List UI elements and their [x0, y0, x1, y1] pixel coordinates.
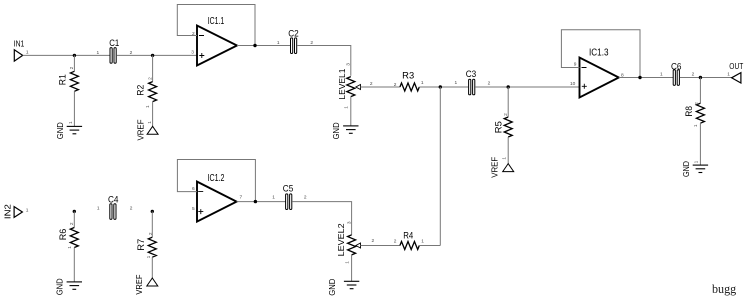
wire R5 top stub: [507, 87, 509, 117]
svg-text:1: 1: [421, 239, 424, 245]
wire R7 to VREF: [151, 257, 153, 278]
op-amp IC1.1: [197, 16, 237, 65]
svg-text:R1: R1: [58, 74, 68, 85]
wire R2 to VREF: [152, 102, 154, 127]
wire R6 to GND: [73, 248, 75, 282]
svg-text:IN1: IN1: [14, 39, 25, 49]
port IN1: [14, 39, 25, 61]
svg-text:2: 2: [372, 238, 375, 244]
svg-text:2: 2: [394, 82, 397, 88]
svg-text:R2: R2: [136, 85, 146, 96]
capacitor C5: [283, 184, 294, 210]
svg-text:2: 2: [192, 31, 195, 37]
svg-text:C5: C5: [283, 184, 294, 194]
svg-text:VREF: VREF: [134, 275, 144, 295]
wire R8 to GND: [699, 123, 701, 165]
svg-text:LEVEL1: LEVEL1: [337, 68, 347, 99]
svg-text:2: 2: [394, 238, 397, 244]
svg-text:2: 2: [370, 81, 373, 87]
svg-text:IC1.2: IC1.2: [208, 173, 225, 184]
capacitor C4: [108, 195, 119, 220]
wire R6 top stub: [73, 211, 75, 227]
op-amp IC1.2: [197, 173, 237, 222]
svg-text:R3: R3: [402, 71, 414, 81]
svg-text:IC1.3: IC1.3: [589, 48, 609, 59]
supply VREF under R5: [490, 157, 514, 178]
resistor R3: [400, 71, 419, 91]
wire feedback loop IC1.3: [561, 30, 640, 78]
wire LEVEL1 wiper to R3: [361, 86, 400, 88]
ground GND under R6: [54, 278, 82, 295]
svg-text:1: 1: [502, 157, 508, 160]
svg-text:GND: GND: [55, 122, 65, 139]
capacitor C3: [466, 69, 477, 95]
svg-text:C2: C2: [288, 29, 299, 39]
svg-text:1: 1: [421, 80, 424, 86]
port OUT: [729, 61, 743, 83]
wire LEVEL2 to GND: [351, 255, 353, 281]
wire IC1.2 output to C5: [237, 201, 286, 203]
svg-text:1: 1: [694, 160, 700, 163]
resistor R1: [58, 71, 79, 91]
svg-text:C1: C1: [109, 38, 119, 48]
svg-text:9: 9: [574, 61, 577, 67]
svg-text:bugg: bugg: [712, 282, 737, 296]
svg-text:C4: C4: [108, 195, 119, 205]
svg-text:3: 3: [346, 63, 352, 66]
svg-text:2: 2: [148, 77, 154, 80]
svg-text:1: 1: [26, 208, 29, 214]
svg-text:1: 1: [727, 72, 730, 78]
svg-text:3: 3: [191, 50, 194, 56]
node junction IC1.1 feedback: [253, 44, 256, 47]
capacitor C6: [671, 62, 682, 86]
svg-text:2: 2: [503, 113, 509, 116]
svg-text:C6: C6: [671, 62, 682, 72]
port IN2: [3, 204, 23, 219]
svg-text:1: 1: [344, 106, 350, 109]
svg-text:2: 2: [69, 66, 75, 69]
wire R3 to C3: [419, 86, 468, 88]
wire LEVEL1 to GND: [350, 97, 352, 126]
wire junction down to R4: [439, 87, 441, 246]
svg-text:1: 1: [145, 105, 151, 108]
capacitor C2: [288, 29, 299, 54]
svg-text:2: 2: [694, 102, 700, 105]
capacitor C1: [109, 38, 119, 63]
svg-text:2: 2: [130, 206, 133, 212]
node junction R2 top: [151, 54, 154, 57]
potentiometer LEVEL1: [337, 68, 361, 99]
wire R5 to VREF: [507, 137, 509, 164]
op-amp IC1.3: [580, 48, 619, 98]
svg-text:1: 1: [67, 246, 73, 249]
svg-text:GND: GND: [54, 278, 64, 295]
node junction R1 top: [73, 54, 76, 57]
resistor R2: [136, 82, 157, 102]
svg-text:2: 2: [488, 80, 491, 86]
node junction R8 top: [699, 76, 702, 79]
supply VREF under R2: [136, 120, 159, 141]
wire R8 top stub: [699, 78, 701, 104]
svg-text:IC1.1: IC1.1: [208, 16, 225, 27]
svg-text:GND: GND: [681, 161, 691, 177]
svg-text:VREF: VREF: [136, 120, 146, 141]
resistor R5: [493, 117, 512, 137]
svg-text:5: 5: [192, 206, 195, 212]
svg-text:GND: GND: [331, 122, 341, 139]
wire R7 top stub: [151, 211, 153, 237]
svg-text:1: 1: [97, 50, 100, 56]
svg-text:1: 1: [146, 255, 152, 258]
svg-text:1: 1: [455, 80, 458, 86]
wire C5 to LEVEL2: [292, 202, 351, 235]
ground GND under LEVEL2: [327, 279, 359, 296]
svg-text:1: 1: [345, 261, 351, 264]
wire R1 to GND: [73, 91, 75, 126]
svg-text:C3: C3: [466, 69, 477, 79]
wire feedback loop IC1.2: [177, 160, 255, 202]
node junction R6 top: [73, 210, 76, 213]
wire IN1 to C1: [23, 54, 110, 56]
svg-text:2: 2: [304, 195, 307, 201]
wire C2 to LEVEL1: [297, 46, 351, 76]
wire R1 top stub: [73, 55, 75, 71]
svg-text:R8: R8: [684, 106, 694, 117]
supply VREF under R7: [134, 275, 158, 295]
svg-text:1: 1: [660, 72, 663, 78]
svg-text:2: 2: [148, 232, 154, 235]
svg-text:1: 1: [693, 124, 699, 127]
svg-text:1: 1: [97, 206, 100, 212]
resistor R4: [400, 230, 419, 249]
svg-text:1: 1: [272, 195, 275, 201]
node junction R3 C3 R4: [439, 85, 442, 88]
svg-text:3: 3: [346, 221, 352, 224]
svg-text:10: 10: [570, 81, 576, 87]
svg-text:OUT: OUT: [729, 61, 743, 71]
ground GND under R1: [55, 122, 82, 139]
node junction R7 top: [151, 210, 154, 213]
node junction IC1.2 feedback: [254, 200, 257, 203]
node junction IC1.3 feedback: [638, 76, 641, 79]
wire C1 to IC1.1: [117, 54, 197, 56]
svg-text:2: 2: [69, 222, 75, 225]
wire LEVEL2 wiper to R4: [361, 245, 400, 247]
svg-text:GND: GND: [327, 279, 337, 296]
svg-text:IN2: IN2: [3, 204, 13, 219]
svg-text:1: 1: [26, 50, 29, 56]
resistor R8: [684, 103, 704, 123]
svg-text:R6: R6: [58, 229, 68, 241]
svg-text:VREF: VREF: [490, 157, 500, 178]
ground GND under R8: [681, 161, 708, 177]
potentiometer LEVEL2: [336, 223, 360, 256]
svg-text:R7: R7: [136, 239, 146, 251]
resistor R7: [136, 237, 156, 257]
wire R2 top stub: [152, 55, 154, 81]
ground GND under LEVEL1: [331, 122, 358, 139]
svg-text:1: 1: [147, 121, 153, 124]
wire C3 to IC1.3: [475, 86, 579, 88]
wire IC1.1 output to C2: [237, 45, 291, 47]
svg-text:1: 1: [68, 121, 74, 124]
svg-text:R5: R5: [493, 121, 503, 133]
wire R4 to junction riser: [419, 245, 440, 247]
wire C6 to OUT: [680, 77, 732, 79]
svg-text:LEVEL2: LEVEL2: [336, 223, 346, 256]
svg-text:2: 2: [692, 72, 695, 78]
wire feedback loop IC1.1: [177, 5, 255, 46]
wire IC1.3 output to C6: [619, 77, 673, 79]
resistor R6: [58, 228, 78, 248]
svg-text:7: 7: [240, 195, 243, 201]
svg-text:R4: R4: [403, 230, 413, 240]
node junction R5 top: [507, 85, 510, 88]
